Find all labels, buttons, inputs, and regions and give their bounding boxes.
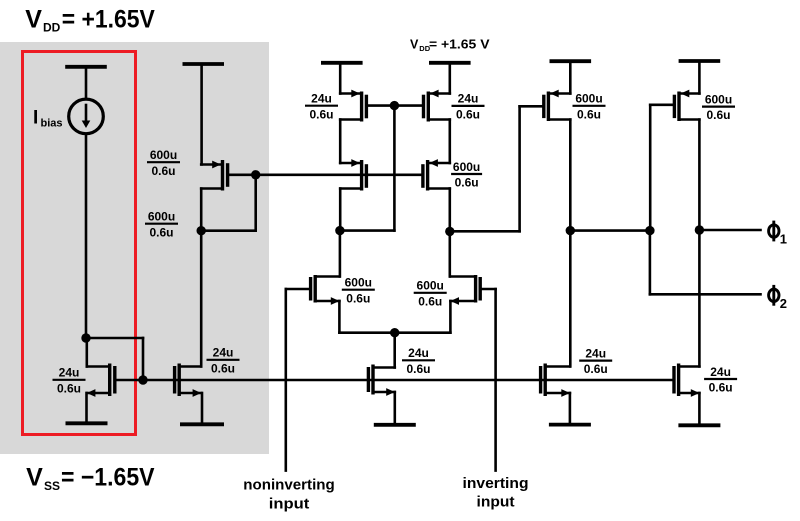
label VDD top left	[25, 6, 155, 35]
transistor P1 600u/0.6u diode PMOS	[201, 160, 227, 191]
current source I_bias circle	[69, 99, 104, 134]
transistor P4 600u/0.6u	[340, 159, 366, 190]
svg-text:0.6u: 0.6u	[709, 381, 733, 395]
W/L label M6 right diff	[414, 279, 447, 309]
node P1 drain	[197, 226, 206, 235]
wire P4 drain to node A	[339, 189, 342, 231]
svg-text:24u: 24u	[458, 92, 479, 106]
W/L label P3	[452, 92, 485, 122]
svg-text:0.6u: 0.6u	[456, 108, 480, 122]
gate wire P6 to node B	[450, 106, 544, 231]
transistor M9 24u/0.6u	[674, 364, 699, 397]
svg-text:24u: 24u	[59, 366, 80, 380]
svg-text:SS: SS	[44, 479, 60, 493]
wire P7 drain down	[698, 120, 701, 367]
wire M5 source	[338, 301, 341, 333]
label I_bias	[33, 108, 63, 130]
wire P5 drain to node B	[448, 189, 451, 232]
bias network shaded region	[0, 42, 269, 454]
wire I_bias to mirror drain	[85, 134, 88, 338]
VDD rail VDD bar above P2	[321, 63, 363, 94]
svg-text:600u: 600u	[345, 276, 372, 290]
node P1 gate	[251, 170, 260, 179]
ground rail VSS under M8	[549, 393, 591, 425]
svg-text:0.6u: 0.6u	[309, 107, 333, 121]
gate wire P7	[650, 105, 674, 231]
wire tail drain	[393, 333, 396, 368]
W/L label M9	[704, 365, 737, 395]
svg-text:24u: 24u	[311, 92, 332, 106]
gate wire P1 to load PMOS pair	[228, 174, 423, 177]
svg-text:1: 1	[780, 232, 787, 247]
VDD rail VDD bar above P6	[550, 61, 592, 93]
svg-text:24u: 24u	[710, 365, 731, 379]
label noninverting input	[243, 477, 335, 513]
svg-text:0.6u: 0.6u	[706, 108, 730, 122]
svg-text:2: 2	[780, 296, 787, 311]
svg-text:DD: DD	[43, 21, 61, 35]
wire node B down to M6 drain	[448, 231, 451, 276]
svg-text:0.6u: 0.6u	[346, 291, 370, 305]
node A left branch	[335, 226, 344, 235]
red highlight box around bias branch	[23, 52, 136, 435]
transistor P6 600u/0.6u	[544, 90, 571, 121]
wire phi1 net	[699, 229, 760, 232]
inverting input wire	[494, 289, 497, 471]
wire phi2 net	[570, 229, 650, 232]
VDD rail VDD bar above P1	[183, 64, 225, 165]
label phi1	[769, 221, 787, 247]
transistor M1 24u/0.6u	[87, 364, 115, 397]
wire M1 drain	[86, 338, 89, 367]
svg-text:24u: 24u	[585, 346, 606, 360]
wire node A down to M5 drain	[339, 231, 342, 277]
node drain M1	[81, 333, 90, 342]
noninverting input wire	[284, 289, 287, 471]
bias gate wire	[115, 379, 674, 382]
svg-text:= +1.65 V: = +1.65 V	[429, 38, 490, 52]
W/L label M8	[579, 346, 612, 376]
transistor M2 24u/0.6u	[175, 364, 202, 397]
label VDD middle	[410, 38, 490, 54]
wire gate tie of P1	[201, 175, 256, 231]
svg-text:24u: 24u	[213, 346, 234, 360]
svg-text:0.6u: 0.6u	[151, 164, 175, 178]
transistor P2 24u/0.6u	[340, 90, 366, 122]
VDD rail VDD bar above P3	[429, 63, 471, 94]
svg-text:0.6u: 0.6u	[418, 294, 442, 308]
gate wire M5	[286, 288, 311, 291]
svg-text:600u: 600u	[705, 92, 732, 106]
svg-text:0.6u: 0.6u	[211, 361, 235, 375]
wire M6 source	[449, 301, 452, 333]
wire drain to gate tie of M1	[86, 338, 143, 380]
svg-text:V: V	[25, 6, 42, 34]
wire P2 drain to P4 source	[339, 120, 342, 164]
node phi1 output	[695, 225, 704, 234]
svg-text:I: I	[33, 108, 38, 129]
ground rail VSS under M7	[374, 392, 416, 425]
node phi1 stage output	[566, 226, 575, 235]
W/L label M5 left diff	[342, 276, 375, 306]
wire common source	[339, 331, 450, 334]
svg-text:= −1.65V: = −1.65V	[61, 463, 155, 491]
svg-text:0.6u: 0.6u	[584, 362, 608, 376]
transistor P7 600u/0.6u	[674, 90, 699, 121]
W/L label P6	[573, 92, 606, 122]
svg-text:24u: 24u	[408, 346, 429, 360]
svg-text:600u: 600u	[575, 92, 602, 106]
svg-text:600u: 600u	[453, 160, 480, 174]
W/L label P5	[451, 160, 482, 190]
transistor M7 24u/0.6u tail	[368, 365, 394, 396]
ground rail VSS under M2	[180, 393, 224, 424]
node common source	[390, 328, 399, 337]
gate wire M6	[480, 288, 495, 291]
svg-text:V: V	[26, 463, 43, 491]
transistor M8 24u/0.6u	[541, 364, 570, 397]
wire P6 drain down	[569, 120, 572, 367]
svg-text:0.6u: 0.6u	[149, 225, 173, 239]
node common gate P2 P3	[390, 101, 399, 110]
svg-text:input: input	[477, 494, 515, 511]
gate wire P2	[366, 104, 394, 107]
svg-text:0.6u: 0.6u	[577, 107, 601, 121]
svg-text:600u: 600u	[148, 210, 175, 224]
label phi2	[769, 285, 787, 311]
wire P3 drain to P5 source	[448, 120, 451, 164]
W/L label P7	[702, 92, 735, 122]
W/L label M1	[53, 366, 86, 396]
svg-text:600u: 600u	[417, 279, 444, 293]
wire node A to mirror gates	[340, 106, 395, 231]
ground rail VSS under M9	[678, 393, 720, 425]
transistor P5 600u/0.6u	[423, 159, 450, 190]
gate wire P3	[394, 104, 423, 107]
svg-text:bias: bias	[41, 118, 63, 130]
W/L label P1 lower	[145, 210, 178, 240]
transistor P3 24u/0.6u	[424, 90, 450, 122]
svg-text:0.6u: 0.6u	[406, 362, 430, 376]
VDD rail VDD bar above P7	[679, 61, 721, 94]
label VSS bottom left	[26, 463, 155, 493]
svg-text:600u: 600u	[150, 148, 177, 162]
wire P1 drain down to M2 drain	[200, 189, 203, 367]
node B right branch	[445, 227, 454, 236]
svg-text:V: V	[410, 38, 419, 52]
transistor M5 600u/0.6u noninverting input	[311, 275, 340, 305]
transistor M6 600u/0.6u inverting input	[450, 275, 480, 305]
W/L label M7	[402, 346, 435, 376]
node gate bias line	[138, 375, 147, 384]
W/L label P2	[305, 92, 338, 122]
svg-text:noninverting: noninverting	[243, 477, 335, 494]
svg-text:0.6u: 0.6u	[455, 176, 479, 190]
svg-text:= +1.65V: = +1.65V	[62, 6, 155, 34]
svg-text:0.6u: 0.6u	[57, 381, 81, 395]
label inverting input	[463, 475, 529, 511]
node phi2 tap	[645, 226, 654, 235]
svg-text:inverting: inverting	[463, 475, 529, 492]
ground rail VSS under M1	[66, 393, 108, 423]
wire phi2 down and right	[650, 231, 761, 295]
W/L label P1 upper	[147, 148, 180, 178]
W/L label M2	[207, 346, 240, 376]
VDD rail VDD bar above I_bias	[65, 67, 107, 99]
svg-text:input: input	[269, 496, 310, 513]
